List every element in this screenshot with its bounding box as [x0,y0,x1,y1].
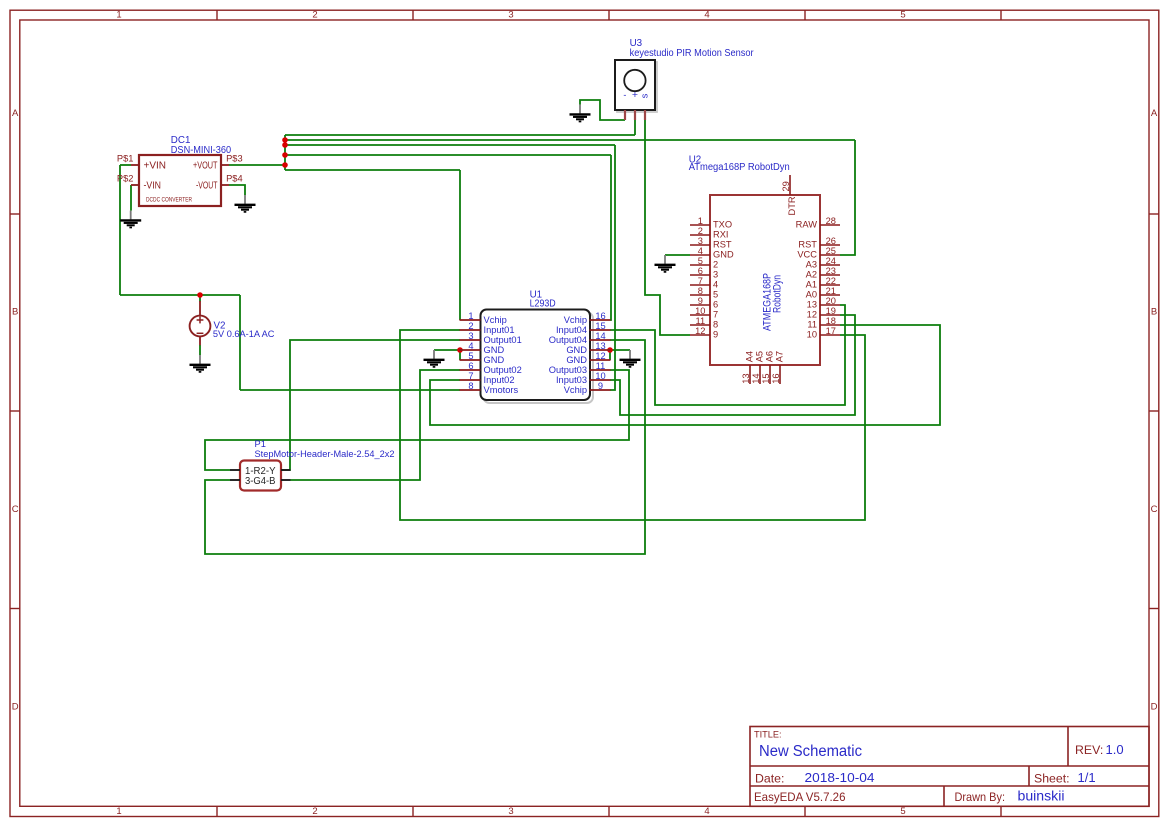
U1 left pins 1-8 [460,320,481,390]
svg-text:3: 3 [698,236,703,246]
svg-text:B: B [1151,307,1157,318]
svg-text:A0: A0 [806,290,817,300]
svg-text:A4: A4 [744,351,754,362]
svg-text:2018-10-04: 2018-10-04 [805,770,875,785]
svg-text:s: s [639,93,650,98]
svg-text:TXO: TXO [713,220,732,230]
svg-text:P1: P1 [255,439,266,449]
wire U3 pin - to ground [580,100,625,120]
svg-text:22: 22 [826,276,836,286]
svg-text:P$4: P$4 [226,173,243,183]
svg-text:D: D [1151,702,1158,713]
svg-text:11: 11 [596,361,606,371]
svg-text:Output04: Output04 [549,335,587,345]
svg-text:RAW: RAW [796,220,818,230]
motor driver U1 L293D body [481,310,594,404]
svg-text:14: 14 [751,373,761,383]
svg-text:L293D: L293D [530,299,556,310]
ground (V2) [190,355,211,372]
wire net +5V: DC1 P$3 to junction column [229,164,285,166]
junction +5V / DC1 P$3 [282,162,288,168]
svg-text:D: D [12,702,19,713]
svg-text:+VOUT: +VOUT [193,161,218,172]
wire net VIN: vertical to Vmotors [239,295,241,390]
svg-text:6: 6 [698,266,703,276]
svg-text:+VIN: +VIN [144,161,167,172]
wire DC1 P$2 to ground [130,185,132,211]
wire DC1 P$4 to ground [229,185,245,195]
svg-text:9: 9 [598,381,603,391]
svg-text:Input03: Input03 [556,375,587,385]
wire net +5V: vertical to U1 pin 9 [610,145,615,390]
svg-text:15: 15 [595,321,605,331]
wire net VIN: DC1 P$1 stub link [120,164,131,166]
svg-text:1.0: 1.0 [1106,742,1124,757]
U2 right pins 17-28 [820,225,840,335]
U2 left pins 1-12 [690,225,710,335]
svg-text:DTR: DTR [787,196,797,215]
svg-text:Date:: Date: [755,771,784,785]
svg-text:20: 20 [826,296,836,306]
svg-text:19: 19 [826,306,836,316]
svg-text:ATmega168P RobotDyn: ATmega168P RobotDyn [689,162,790,173]
svg-text:4: 4 [698,246,703,256]
junction +5V / U1 pin9 bus [282,142,288,148]
svg-text:1: 1 [698,216,703,226]
svg-text:Drawn By:: Drawn By: [955,790,1006,804]
svg-text:12: 12 [695,326,705,336]
title block frame [750,727,1149,807]
svg-text:A: A [1151,108,1158,119]
svg-text:DSN-MINI-360: DSN-MINI-360 [171,145,232,156]
svg-text:8: 8 [468,381,473,391]
svg-text:24: 24 [826,256,836,266]
svg-text:12: 12 [807,310,817,320]
ground (U2 GND) [655,255,676,272]
U2 side pin numbers and names [695,216,836,340]
svg-text:25: 25 [826,246,836,256]
wire net Y: U1 Output01 to P1 pin 2 [281,340,460,470]
wire U2 pin 4 GND to ground [665,254,690,256]
svg-text:buinskii: buinskii [1018,789,1065,804]
svg-text:3-G4-B: 3-G4-B [245,476,276,487]
wire net +5V: vertical to U1 pin 16 [610,155,611,320]
svg-text:2: 2 [713,260,718,270]
svg-text:keyestudio PIR Motion Sensor: keyestudio PIR Motion Sensor [630,48,755,59]
svg-text:3: 3 [508,10,513,21]
svg-text:P$1: P$1 [117,154,134,164]
svg-text:C: C [12,504,19,515]
svg-text:C: C [1151,504,1158,515]
wire net D13: U1 Input04 to U2 pin 20 [610,305,845,405]
svg-text:Input04: Input04 [556,325,587,335]
wire net +5V: junction column vertical [284,135,286,170]
junction U1 GND left [457,347,463,353]
ground (DC1 -VOUT) [235,195,256,212]
svg-text:REV:: REV: [1075,743,1103,757]
svg-text:P$2: P$2 [117,173,134,183]
svg-text:Output02: Output02 [484,365,522,375]
svg-text:4: 4 [468,341,473,351]
wire net +5V: vertical to U1 pin 1 [459,170,461,320]
svg-text:TITLE:: TITLE: [754,730,782,740]
DC-DC converter DC1 DSN-MINI-360 [131,155,229,206]
svg-text:9: 9 [713,330,718,340]
U2 top pin 29 DTR [781,175,797,216]
svg-text:4: 4 [713,280,718,290]
wire net B: U1 Output02 to P1 pin 4 [291,370,461,480]
svg-text:5: 5 [900,10,905,21]
svg-text:13: 13 [807,300,817,310]
U2 bottom pins 13-16 (A4-A7) [741,351,784,384]
svg-text:5V 0.6A-1A AC: 5V 0.6A-1A AC [213,329,275,339]
svg-text:17: 17 [826,326,836,336]
wire net +5V: bus to U1 pin 1 [285,169,460,171]
wire net +5V: drop to U3 pin + [634,120,636,135]
svg-text:7: 7 [698,276,703,286]
wire net VIN: tap to V2 + [199,295,201,302]
junction VIN at V2 + [197,292,203,298]
svg-text:14: 14 [595,331,605,341]
svg-text:A1: A1 [806,280,817,290]
svg-text:8: 8 [698,286,703,296]
wire net +5V: bus to U2 VCC [285,139,855,141]
junction U1 GND right [607,347,613,353]
svg-text:GND: GND [566,345,587,355]
svg-text:6: 6 [468,361,473,371]
svg-text:Input01: Input01 [484,325,515,335]
wire net VIN: horizontal to U1 pin 8 [240,389,460,391]
wire U1 pin 13 GND to ground [610,349,630,351]
svg-text:4: 4 [704,806,709,817]
svg-text:+: + [632,89,638,101]
svg-text:-: - [623,90,626,100]
svg-text:5: 5 [468,351,473,361]
svg-text:1/1: 1/1 [1078,770,1096,785]
svg-text:-VIN: -VIN [144,181,162,192]
svg-text:RXI: RXI [713,230,729,240]
wire U1 pin 13 to pin 12 GND [609,350,611,360]
svg-text:Vchip: Vchip [564,315,587,325]
svg-text:4: 4 [704,10,709,21]
ground (U1 GND left) [424,350,445,367]
svg-text:11: 11 [807,320,817,330]
svg-text:13: 13 [595,341,605,351]
svg-text:A6: A6 [764,351,774,362]
wire net R: U1 Output03 to P1 pin 1 [205,370,629,470]
svg-text:12: 12 [595,351,605,361]
wire net +5V: vertical to U2 VCC [840,140,855,255]
svg-text:5: 5 [900,806,905,817]
wire net +5V: bus to U3 pin + [285,134,635,136]
wire net D11: U1 Input02 to U2 pin 18 [430,325,940,425]
junction +5V / U1 pin16 bus [282,152,288,158]
svg-text:2: 2 [468,321,473,331]
U1 right pins 16-9 [590,320,611,390]
svg-text:DCDC CONVERTER: DCDC CONVERTER [146,196,192,203]
svg-text:8: 8 [713,320,718,330]
svg-text:RST: RST [713,240,732,250]
svg-text:15: 15 [761,373,771,383]
svg-text:Output03: Output03 [549,365,587,375]
svg-text:GND: GND [484,355,505,365]
wire U1 pin 4 to pin 5 GND [459,350,461,360]
svg-text:3: 3 [468,331,473,341]
svg-text:RST: RST [798,240,817,250]
ground (U1 GND right) [620,350,641,367]
junction +5V / U3 + bus [282,137,288,143]
svg-text:GND: GND [484,345,505,355]
svg-text:2: 2 [312,806,317,817]
svg-text:Vmotors: Vmotors [484,385,519,395]
svg-text:Input02: Input02 [484,375,515,385]
svg-text:A3: A3 [806,260,817,270]
svg-text:7: 7 [468,371,473,381]
svg-text:A7: A7 [774,351,784,362]
wire V2 - to ground [199,345,201,355]
svg-text:3: 3 [508,806,513,817]
ground (U3 -) [570,105,591,122]
PIR motion sensor U3 [615,60,657,120]
stepper header P1 body [230,461,291,491]
svg-text:A2: A2 [806,270,817,280]
ground (DC1 -VIN) [120,211,141,228]
svg-text:RobotDyn: RobotDyn [772,275,784,313]
svg-text:1: 1 [468,311,473,321]
svg-text:A5: A5 [754,351,764,362]
svg-text:Output01: Output01 [484,335,522,345]
svg-text:11: 11 [695,316,705,326]
svg-text:VCC: VCC [797,250,817,260]
svg-text:23: 23 [826,266,836,276]
svg-text:13: 13 [741,373,751,383]
svg-text:2: 2 [312,10,317,21]
svg-text:16: 16 [771,373,781,383]
svg-text:1: 1 [116,10,121,21]
svg-text:1: 1 [116,806,121,817]
wire net +5V: bus to U1 pin 16 [285,154,611,156]
svg-text:26: 26 [826,236,836,246]
U1 pin numbers and names [468,311,605,395]
svg-text:A: A [12,108,19,119]
wire net G: U1 Output04 to P1 pin 3 [205,340,645,554]
svg-text:10: 10 [695,306,705,316]
svg-text:Vchip: Vchip [564,385,587,395]
svg-text:EasyEDA V5.7.26: EasyEDA V5.7.26 [754,790,846,804]
svg-text:18: 18 [826,316,836,326]
svg-text:StepMotor-Header-Male-2.54_2x2: StepMotor-Header-Male-2.54_2x2 [255,449,395,459]
svg-text:10: 10 [807,330,817,340]
svg-text:New Schematic: New Schematic [759,743,862,760]
voltage source V2 [190,301,211,345]
svg-text:29: 29 [781,181,791,191]
wire net SIG: U3 pin s to U2 pin 12 [645,120,690,335]
svg-text:GND: GND [713,250,734,260]
wire net D12: U1 Input03 to U2 pin 19 [610,315,855,415]
svg-text:21: 21 [826,286,836,296]
svg-text:GND: GND [566,355,587,365]
svg-text:6: 6 [713,300,718,310]
svg-text:B: B [12,307,18,318]
microcontroller U2 ATmega168P body [710,195,820,365]
svg-text:7: 7 [713,310,718,320]
svg-text:28: 28 [826,216,836,226]
svg-text:5: 5 [698,256,703,266]
svg-text:16: 16 [595,311,605,321]
svg-text:-VOUT: -VOUT [196,181,218,192]
wire net +5V: bus to U1 pin 9 [285,144,615,146]
svg-text:2: 2 [698,226,703,236]
svg-text:Vchip: Vchip [484,315,507,325]
svg-text:5: 5 [713,290,718,300]
wire net D10: U1 Input01 to U2 pin 17 [400,330,865,520]
wire U1 pin 4 GND to ground [434,349,460,351]
svg-text:10: 10 [595,371,605,381]
wire net VIN: left vertical [119,165,121,295]
svg-text:Sheet:: Sheet: [1034,771,1070,785]
svg-text:3: 3 [713,270,718,280]
svg-text:9: 9 [698,296,703,306]
wire net VIN: horizontal to V2 [120,294,240,296]
